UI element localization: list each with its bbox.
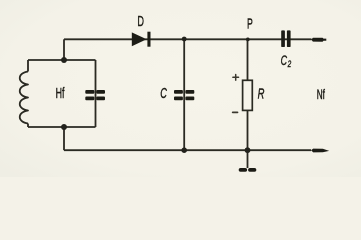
ground — [241, 168, 255, 172]
wire C branch vertical — [183, 39, 185, 150]
label minus — [233, 111, 238, 113]
capacitor tank plates — [85, 90, 105, 100]
wire bottom rail — [64, 149, 311, 151]
svg-text:C: C — [160, 85, 167, 102]
svg-text:Nf: Nf — [317, 87, 325, 102]
capacitor C2 plates — [281, 30, 290, 47]
label plus — [233, 75, 239, 81]
diode D — [132, 32, 151, 47]
wire riser from tank top to rail — [63, 39, 65, 60]
node junction top rail / C — [182, 37, 187, 42]
wire tank loop bottom — [28, 126, 96, 128]
node junction tank bottom — [61, 124, 67, 130]
node junction bottom rail / R — [245, 147, 251, 153]
svg-text:Hf: Hf — [56, 86, 65, 102]
node junction tank top — [61, 57, 67, 63]
wire top rail — [64, 38, 312, 40]
wire ground stub — [247, 150, 249, 168]
svg-text:C: C — [281, 53, 288, 68]
svg-text:2: 2 — [287, 59, 292, 70]
node junction bottom rail / C — [181, 147, 187, 153]
svg-text:D: D — [137, 14, 144, 30]
svg-text:R: R — [258, 86, 265, 103]
node P junction — [246, 38, 250, 42]
wire R branch vertical — [247, 39, 249, 150]
svg-text:P: P — [247, 16, 253, 32]
resistor R — [243, 80, 253, 110]
wire tank bottom to ground rail — [63, 127, 65, 150]
wire tank loop top — [28, 59, 96, 61]
capacitor C plates — [174, 90, 194, 100]
inductor Hf coil — [20, 72, 28, 124]
wire tank loop right side — [95, 60, 97, 127]
wire tank loop left stubs — [27, 60, 29, 127]
arrow output bottom — [311, 149, 329, 153]
arrow output top — [311, 38, 326, 42]
